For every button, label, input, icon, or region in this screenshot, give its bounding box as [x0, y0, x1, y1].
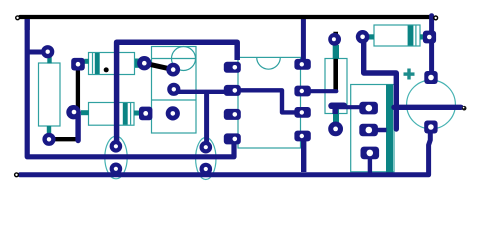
- wire link W2 outline box: [325, 59, 347, 114]
- pad D1 right: [423, 31, 436, 44]
- pad P5: [167, 83, 180, 96]
- pad C4 top: [424, 71, 437, 84]
- capacitor C4 outline (electrolytic): [407, 80, 456, 129]
- relay RL1 outline: [152, 47, 197, 134]
- pad C (node C): [328, 121, 343, 136]
- capacitor C3 outline (electrolytic): [196, 138, 216, 180]
- pad stub D1 left: [369, 34, 374, 39]
- pad D1 left: [356, 30, 370, 44]
- wire: U1 pin2 to pin7 Z trace: [232, 90, 303, 112]
- wire: junction to terminal T4: [394, 105, 461, 110]
- wire: Q1 pin 3 down to bottom rail: [368, 155, 372, 173]
- pad stub R1 bottom: [47, 126, 51, 134]
- wire: node C to Q1 pin 1: [336, 105, 368, 109]
- wire: D1 left pad staircase down behind Q1 tab: [364, 37, 397, 129]
- wire: left rail and bottom rail A: [27, 19, 234, 157]
- wire link W2 (vertical): [333, 32, 338, 92]
- pad C2 bottom: [110, 163, 123, 176]
- wire: Q1 pin 2 stub: [368, 128, 387, 132]
- pad P11: [166, 106, 180, 120]
- wire link W5 (diagonal P7 to P8): [144, 63, 173, 69]
- pad U1 pin 7: [294, 86, 310, 97]
- pad A (link W2 top): [328, 33, 341, 46]
- pad P1: [41, 45, 54, 58]
- transistor Q1 outline (TO-220): [351, 85, 394, 177]
- terminal T3: [15, 173, 19, 177]
- wire: C4 bottom pad to bottom rail B: [20, 127, 430, 175]
- pad Q1 pin 2: [359, 124, 378, 137]
- wire: pad P5 to U1 pin 2: [174, 90, 232, 94]
- pad Q1 pin 3: [361, 147, 380, 160]
- wire: left rail top (under bus): [25, 15, 30, 30]
- wire: pad P3 down to junction: [75, 112, 80, 140]
- pad C4 bottom: [424, 121, 437, 134]
- via dot in C1: [104, 67, 109, 72]
- pad U1 pin 2: [224, 85, 241, 96]
- capacitor C1 outline: [89, 53, 135, 75]
- pad stub C1 right: [135, 59, 143, 68]
- resistor R1 outline: [39, 63, 61, 126]
- wire: drop to C3 top pad: [204, 92, 209, 148]
- wire: top frame trace: [117, 42, 238, 146]
- wire: U1 pin 5 down to bottom rail: [301, 137, 306, 172]
- wire link W3 (pad P4 to pad P3): [76, 68, 80, 110]
- wire link W4 (pad P2 to junction): [49, 137, 79, 141]
- capacitor C2 outline (electrolytic): [105, 136, 127, 179]
- pad stub D2 left: [81, 110, 89, 115]
- pad Q1 pin 1: [359, 102, 378, 115]
- pad stub node C: [333, 109, 339, 123]
- pad stub D1 right: [420, 34, 425, 39]
- pad stub R1 top: [47, 55, 51, 64]
- wire: stub to pad P1: [26, 50, 42, 55]
- pad stub D2 right: [134, 111, 140, 116]
- pad U1 pin 6: [294, 107, 310, 118]
- pad U1 pin 4: [224, 133, 241, 144]
- pad U1 pin 5: [294, 131, 310, 142]
- C4 polarity plus: [404, 69, 415, 80]
- pad U1 pin 1: [224, 62, 241, 73]
- op-amp U1 outline (DIP-8): [238, 57, 301, 148]
- pad P12: [139, 107, 152, 121]
- terminal T2: [434, 16, 438, 20]
- wire link W1 (top bus): [20, 15, 429, 19]
- pad P7: [137, 56, 151, 70]
- wire: U1 pin 8 up to bus: [301, 16, 306, 65]
- pad C3 top: [200, 141, 213, 154]
- pad U1 pin 3: [224, 109, 241, 120]
- pad P2: [42, 133, 55, 146]
- diode D1 outline: [374, 25, 420, 46]
- pad U1 pin 8: [294, 59, 310, 70]
- pad C3 bottom: [200, 163, 213, 176]
- wire: elbow at node C: [332, 106, 338, 115]
- pad P4: [71, 58, 85, 71]
- pad stub C1 left: [85, 59, 89, 64]
- diode D2 outline: [89, 103, 135, 126]
- wire: U1 pin 7 to link W2: [303, 89, 337, 93]
- pad P3: [66, 105, 80, 119]
- pad C2 top: [110, 140, 123, 153]
- terminal T1: [16, 16, 20, 20]
- pad P8: [166, 63, 180, 77]
- terminal T4: [462, 106, 467, 111]
- wire: D1 right pad chain down to C4: [429, 16, 434, 79]
- pad stub link W2 top: [333, 45, 339, 59]
